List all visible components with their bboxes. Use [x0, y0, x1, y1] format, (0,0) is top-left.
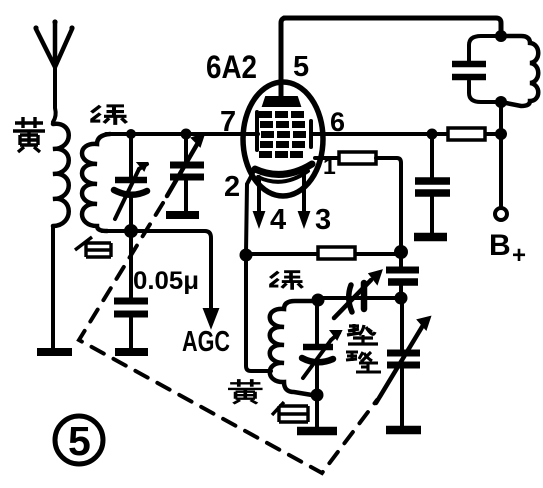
- label padder char1: [347, 324, 378, 344]
- node dot osc right: [394, 245, 408, 259]
- variable capacitor C8 osc tuning: [376, 298, 430, 426]
- capacitor C3 0.05u: [114, 231, 148, 348]
- trimmer capacitor C5 osc: [302, 300, 341, 394]
- heater pin4 lead with arrow: [257, 177, 261, 212]
- svg-text:7: 7: [220, 106, 236, 138]
- label white (osc): [272, 402, 308, 422]
- wire yellow tap L-wire: [246, 255, 271, 371]
- capacitor C4 screen bypass: [415, 134, 450, 233]
- wire pin1 lead: [315, 156, 339, 160]
- node dot bottom rail: [124, 224, 138, 238]
- wire osc grid rail: [246, 252, 401, 256]
- label green (antenna): [90, 105, 126, 125]
- capacitor C7 osc grid coupling: [386, 251, 419, 298]
- wire primary bottom to ground: [51, 226, 55, 348]
- figure number 5 circle: [55, 416, 103, 464]
- node dot tank top: [495, 30, 507, 42]
- terminal B+: [495, 208, 507, 220]
- svg-text:5: 5: [293, 51, 309, 83]
- resistor R3 osc grid leak: [318, 247, 355, 259]
- anode plate: [263, 97, 300, 106]
- inductor L1 antenna primary coil: [53, 124, 69, 226]
- trimmer capacitor C1: [114, 134, 147, 226]
- ground osc coil: [297, 427, 337, 436]
- node dot osc coil top: [312, 294, 325, 307]
- wire pin1 resistor to osc node: [376, 158, 401, 251]
- tank circuit top right: capacitor C9: [452, 36, 501, 102]
- node dot varcap top: [181, 129, 192, 140]
- svg-text:AGC: AGC: [182, 326, 230, 358]
- svg-text:5: 5: [68, 418, 91, 464]
- node dot pin2: [240, 249, 253, 262]
- ground 0.05u: [115, 348, 148, 356]
- wire B+ lead: [499, 134, 503, 207]
- label green (osc): [269, 271, 302, 290]
- node dot trimmer top: [126, 129, 136, 139]
- trimmer capacitor C6 series padder trimmer: [334, 271, 381, 318]
- ground osc varcap: [386, 426, 421, 435]
- node dot mid rail right: [395, 292, 408, 305]
- label yellow (antenna): [13, 117, 45, 152]
- resistor R1 screen dropping: [448, 128, 485, 140]
- wire bottom rail antenna tank: [102, 231, 211, 311]
- tube 6A2 envelope U1: [243, 82, 323, 196]
- label white (antenna): [75, 237, 111, 257]
- svg-text:1: 1: [323, 153, 336, 179]
- inductor L2 antenna secondary coil: [82, 134, 110, 231]
- svg-text:B: B: [489, 229, 511, 262]
- wire osc mid rail: [318, 296, 401, 300]
- AGC arrow: [204, 309, 218, 327]
- wire top rail B+ feed: [284, 18, 501, 36]
- inductor L4 tank coil: [501, 36, 538, 106]
- heater pin3 lead with arrow: [302, 173, 306, 212]
- wire gang dashed line: [79, 203, 377, 473]
- grid rows: [259, 111, 306, 158]
- label yellow (osc): [228, 379, 263, 404]
- wire pin2 lead: [246, 169, 255, 253]
- node dot bypass cap: [427, 129, 438, 140]
- svg-text:3: 3: [315, 204, 331, 236]
- node dot osc coil bottom: [311, 389, 324, 402]
- node dot tank bottom: [495, 96, 507, 108]
- node dot B+ rail: [495, 128, 507, 140]
- svg-text:6A2: 6A2: [206, 49, 257, 85]
- resistor R2 oscillator anode: [339, 152, 376, 164]
- antenna: [33, 19, 74, 122]
- wire tank to rail: [499, 102, 503, 134]
- svg-text:0.05μ: 0.05μ: [133, 267, 199, 295]
- wire osc ground stub: [315, 394, 319, 428]
- variable capacitor C2 tuning (antenna): [166, 134, 204, 215]
- ground screen bypass: [414, 233, 447, 242]
- grid bracket left (pin7): [255, 112, 259, 150]
- svg-text:2: 2: [224, 171, 240, 203]
- svg-text:6: 6: [330, 107, 345, 137]
- svg-text:+: +: [512, 242, 526, 269]
- inductor L3 oscillator coil: [270, 301, 318, 396]
- wire pin6 screen rail: [311, 132, 501, 136]
- grid bracket right (pin6): [309, 121, 313, 147]
- ground antenna primary: [37, 348, 72, 356]
- svg-text:4: 4: [270, 204, 286, 236]
- heater arc: [258, 171, 308, 182]
- wire top rail grid (node G1): [106, 132, 258, 136]
- wire pin5 plate lead: [281, 18, 286, 96]
- cathode: [255, 164, 312, 174]
- label padder char2: [346, 351, 381, 372]
